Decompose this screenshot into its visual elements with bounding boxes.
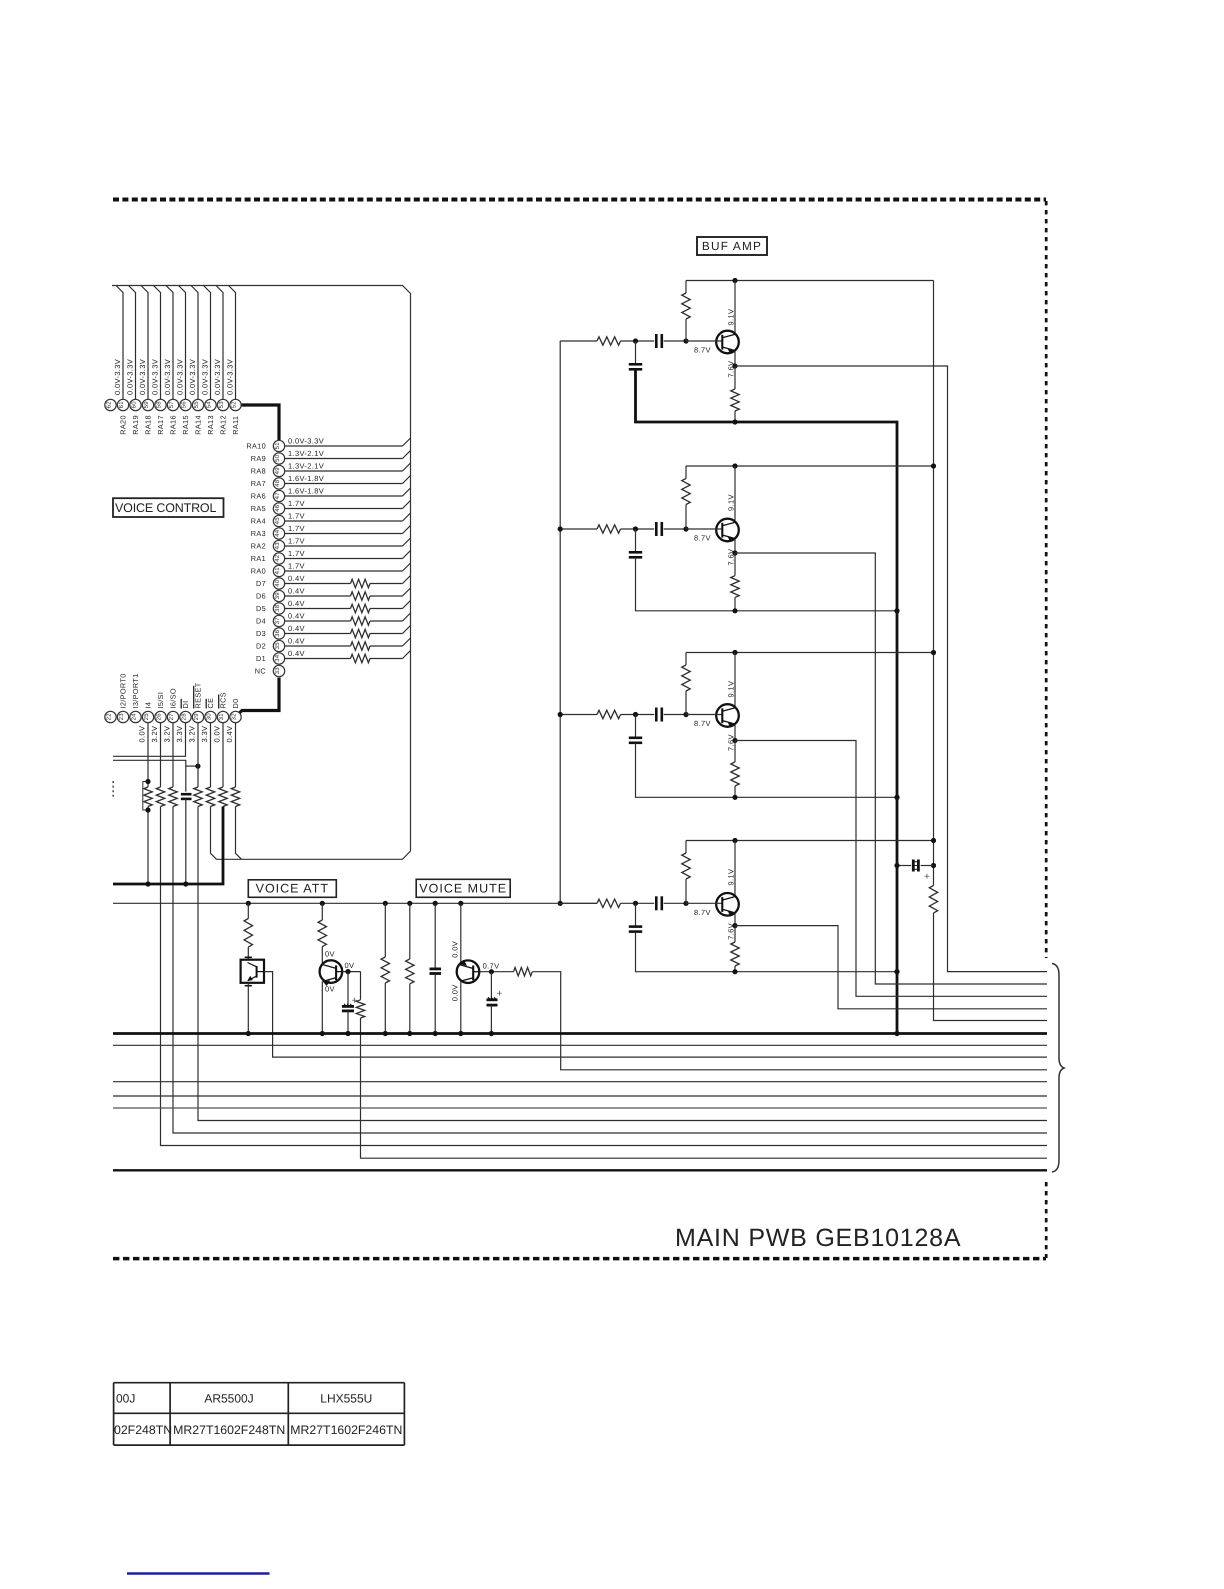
svg-text:RA15: RA15 [181,415,190,435]
wire rail stage1 [686,280,934,282]
node emitter-res return stage4 [732,969,737,974]
pin 60 circle [130,399,141,410]
wire return stage4 [636,932,898,972]
resistor emitter stage2 [734,553,736,576]
svg-text:0.4V: 0.4V [225,726,234,743]
svg-text:0.0V-3.3V: 0.0V-3.3V [226,359,235,395]
resistor supply bus [929,886,937,913]
svg-text:+: + [497,989,503,1000]
resistor pin27 [169,787,177,806]
svg-text:57: 57 [168,401,175,409]
svg-text:32: 32 [231,713,238,721]
pin 55 circle [192,399,203,410]
svg-text:RA9: RA9 [251,454,266,463]
wire RA10 to bus [285,445,403,447]
svg-text:42: 42 [274,554,281,562]
svg-text:RA10: RA10 [246,442,266,451]
wire input stage1 [560,340,597,342]
wire output stage1 [735,366,1047,972]
pin 49 RA8 circle [273,465,284,476]
svg-text:0.4V: 0.4V [288,574,305,583]
svg-text:D1: D1 [256,654,266,663]
node cap ground [183,881,188,886]
pin 28 circle [180,711,191,722]
svg-text:1.7V: 1.7V [288,512,305,521]
label box VOICE ATT [248,880,336,898]
svg-text:RA8: RA8 [251,467,266,476]
node emitter stage2 [732,550,737,555]
svg-text:0.0V-3.3V: 0.0V-3.3V [188,359,197,395]
wire RA3 to bus [285,533,403,535]
wire D4 to bus [285,620,351,622]
wire RA7 to bus [285,483,403,485]
svg-text:I6/SO: I6/SO [169,688,178,708]
node stage2 filter [633,526,638,531]
svg-text:MR27T1602F246TN: MR27T1602F246TN [290,1423,402,1437]
svg-text:55: 55 [193,401,200,409]
svg-text:RA4: RA4 [251,517,266,526]
pin 53 circle [217,399,228,410]
svg-text:62: 62 [106,401,113,409]
svg-text:I4: I4 [144,702,153,709]
node stage3 filter [633,712,638,717]
table IC versions [114,1383,405,1445]
svg-text:34: 34 [274,654,281,662]
svg-text:RA6: RA6 [251,492,266,501]
capacitor series stage1 [655,334,658,348]
wire RA9 to bus [285,458,403,460]
svg-text:58: 58 [156,401,163,409]
svg-text:RA0: RA0 [251,567,266,576]
svg-text:8.7V: 8.7V [694,908,711,917]
node return ground stage3 [894,795,899,800]
node ground s3 [894,795,899,800]
pin 47 RA6 circle [273,490,284,501]
wire bus line 1170 thick [113,1169,1047,1171]
node voice line x409.8 [407,901,412,906]
wire input stage4 [560,902,597,904]
overline DI [180,699,182,709]
svg-text:I2/PORT0: I2/PORT0 [119,673,128,708]
wire ground bus thick [113,1032,1047,1035]
capacitor shunt stage2 [635,529,637,552]
pin 59 circle [142,399,153,410]
svg-text:29: 29 [193,713,200,721]
wire mute base to connector [532,972,1047,1070]
svg-text:00J: 00J [116,1392,135,1406]
dashed border bottom [113,1257,1046,1261]
pin 44 RA3 circle [273,528,284,539]
node stage4 base [683,901,688,906]
bus RA/D outline [112,286,411,860]
svg-text:0.0V: 0.0V [450,984,459,1001]
svg-text:0.0V-3.3V: 0.0V-3.3V [151,359,160,395]
pin 29 circle [192,711,203,722]
svg-text:0.0V: 0.0V [138,726,147,743]
wire input stage3 [560,714,597,716]
svg-text:0.4V: 0.4V [288,599,305,608]
svg-text:0V: 0V [345,961,355,970]
wire D5 to bus [285,608,351,610]
wire output stage2 [735,553,1047,984]
wire D1 to bus [285,658,351,660]
overline RCS [218,695,220,709]
resistor D2 series [351,642,370,650]
svg-text:BUF AMP: BUF AMP [702,239,762,253]
label box BUF AMP [697,237,767,255]
svg-text:0.4V: 0.4V [288,612,305,621]
svg-text:D7: D7 [256,579,266,588]
node mutecap2 ground [489,1031,494,1036]
svg-text:50: 50 [274,454,281,462]
svg-text:1.7V: 1.7V [288,537,305,546]
svg-text:RA3: RA3 [251,529,266,538]
wire pin58 to bus [154,286,161,400]
wire pin30 CE [210,723,212,787]
IC1 boundary link pin52-pin51 [241,405,279,440]
pin 27 circle [167,711,178,722]
wire pin28 DI [113,723,186,756]
node emitter-res return stage2 [732,608,737,613]
node stage1 filter [633,338,638,343]
resistor base stage3 [685,653,687,666]
wire RA0 to bus [285,570,403,572]
svg-text:0V: 0V [325,985,335,994]
svg-text:02F248TN: 02F248TN [114,1423,172,1437]
resistor pin31 [219,787,227,806]
wire pin25 [147,723,149,787]
wire cap to pin29 [186,765,198,767]
svg-text:1.6V-1.8V: 1.6V-1.8V [288,487,324,496]
wire rail stage4 [686,840,934,842]
svg-text:RESET: RESET [194,682,203,708]
svg-text:0.4V: 0.4V [288,624,305,633]
node collector rail stage2 [732,463,737,468]
svg-text:27: 27 [168,713,175,721]
node ground s2 [894,608,899,613]
svg-text:CE: CE [206,698,215,709]
resistor D4 series [351,617,370,625]
node collector rail stage1 [732,278,737,283]
resistor emitter stage1 [734,366,736,389]
node supply rail3 [931,650,936,655]
wire RA5 to bus [285,508,403,510]
resistor base stage4 [685,841,687,854]
node supply cap [931,863,936,868]
svg-text:1.3V-2.1V: 1.3V-2.1V [288,449,324,458]
node emitter stage1 [732,363,737,368]
svg-text:D3: D3 [256,629,266,638]
svg-text:61: 61 [118,401,125,409]
jumper parallel pin25 [143,782,148,811]
node emitter stage4 [732,923,737,928]
svg-text:D5: D5 [256,604,266,613]
capacitor shunt stage1 [635,341,637,364]
pin 36 D3 circle [273,628,284,639]
svg-text:0.0V-3.3V: 0.0V-3.3V [126,359,135,395]
svg-text:0.4V: 0.4V [288,649,305,658]
transistor Q-att1 digital [241,960,264,983]
node voice line x385.3 [383,901,388,906]
wire input bus vertical [559,341,561,903]
dashed border top [113,198,1046,202]
wire pin31 RCS [222,723,224,787]
svg-text:RA5: RA5 [251,504,266,513]
wire mute collector down [460,981,462,1033]
node voice line x322.3 [320,901,325,906]
svg-text:53: 53 [218,401,225,409]
svg-text:31: 31 [218,713,225,721]
node stage3 base [683,712,688,717]
resistor mute1 [384,903,386,957]
svg-text:AR5500J: AR5500J [204,1392,253,1406]
node supply rail4 [931,838,936,843]
svg-text:39: 39 [274,592,281,600]
capacitor electrolytic att [347,972,349,1007]
wire pin56 to bus [179,286,186,400]
svg-text:DI: DI [181,701,190,709]
wire mute base [479,971,513,973]
svg-text:RA17: RA17 [156,415,165,435]
connector brace [1052,964,1064,1173]
wire pin59 to bus [141,286,148,400]
wire att1 base out [264,972,1047,1058]
svg-text:0.4V: 0.4V [288,587,305,596]
pin 62 circle [105,399,116,410]
svg-text:1.6V-1.8V: 1.6V-1.8V [288,474,324,483]
svg-text:9.1V: 9.1V [727,869,736,886]
label box VOICE MUTE [416,879,510,897]
svg-text:1.7V: 1.7V [288,562,305,571]
svg-text:I3/PORT1: I3/PORT1 [131,673,140,708]
node input s4 [558,901,563,906]
node att2 base [345,969,350,974]
pin 35 D2 circle [273,640,284,651]
svg-text:24: 24 [131,713,138,721]
node supply rail2 [931,463,936,468]
capacitor shunt stage3 [635,715,637,738]
wire return stage1 thick ground [636,369,898,1033]
wire pin29 RESET [197,723,199,787]
svg-text:49: 49 [274,467,281,475]
wire pin27 [172,723,174,787]
wire supply bus [933,281,935,886]
svg-text:D0: D0 [231,698,240,708]
wire pin32 D0 [235,723,237,787]
svg-text:25: 25 [143,713,150,721]
pin 31 circle [217,711,228,722]
svg-text:0.7V: 0.7V [483,962,500,971]
wire emitter stage2 [734,539,736,553]
svg-text:D6: D6 [256,592,266,601]
svg-text:45: 45 [274,517,281,525]
svg-text:0.0V-3.3V: 0.0V-3.3V [138,359,147,395]
wire emitter stage4 [734,913,736,925]
svg-text:D2: D2 [256,642,266,651]
wire bus line 1096 [113,1095,1047,1097]
svg-text:44: 44 [274,529,281,537]
node mute base [489,969,494,974]
pin 33 NC circle [273,665,284,676]
svg-text:54: 54 [206,401,213,409]
node att1 ground [246,1031,251,1036]
capacitor electrolytic C-buf [897,865,911,867]
svg-text:RA1: RA1 [251,554,266,563]
wire RA6 to bus [285,495,403,497]
node input s2 [558,526,563,531]
wire att2 base out [342,971,360,973]
svg-text:3.3V: 3.3V [200,726,209,743]
svg-text:0V: 0V [325,950,335,959]
node mute ground [458,1031,463,1036]
svg-text:1.7V: 1.7V [288,524,305,533]
wire RA2 to bus [285,545,403,547]
wire RA4 to bus [285,520,403,522]
resistor base stage2 [685,466,687,479]
svg-text:28: 28 [181,713,188,721]
svg-text:VOICE MUTE: VOICE MUTE [419,882,507,896]
svg-text:1.7V: 1.7V [288,549,305,558]
transistor Q-buf2 [686,519,739,542]
resistor input stage4 [597,899,621,907]
svg-text:8.7V: 8.7V [694,346,711,355]
node mutecap ground [433,1031,438,1036]
IC1 boundary link pin33-pin32 [238,678,279,715]
node emitter-res ground stage1 [732,419,737,424]
svg-text:9.1V: 9.1V [727,494,736,511]
pin 46 RA5 circle [273,503,284,514]
svg-text:RA12: RA12 [219,415,228,435]
node emitter-res return stage3 [732,795,737,800]
node pin25 bottom [145,807,150,812]
capacitor electrolytic mute [490,972,492,1000]
node stage4 filter [633,901,638,906]
pin 45 RA4 circle [273,515,284,526]
node stage1 base [683,338,688,343]
svg-text:52: 52 [231,401,238,409]
svg-text:LHX555U: LHX555U [320,1392,372,1406]
resistor pin26 [156,787,164,806]
wire rail stage3 [686,652,934,654]
svg-text:8.7V: 8.7V [694,719,711,728]
tick att1 top lead [245,956,252,958]
resistor base stage1 [685,281,687,294]
svg-text:RA13: RA13 [206,415,215,435]
node mute2 ground [407,1031,412,1036]
svg-text:0.0V: 0.0V [213,726,222,743]
wire output stage3 [735,741,1047,997]
svg-text:48: 48 [274,479,281,487]
wire pin60 to bus [129,286,136,400]
wire collector stage1 [734,281,736,334]
pin 25 circle [142,711,153,722]
svg-text:0.4V: 0.4V [288,637,305,646]
svg-text:RCS: RCS [219,692,228,708]
svg-text:47: 47 [274,492,281,500]
wire return stage2 [636,557,898,611]
resistor D1 series [351,654,370,662]
svg-text:RA11: RA11 [231,416,240,435]
pin 42 RA1 circle [273,553,284,564]
wire collector stage3 [734,653,736,708]
svg-text:1.3V-2.1V: 1.3V-2.1V [288,462,324,471]
pin 61 circle [117,399,128,410]
svg-text:43: 43 [274,542,281,550]
resistor pin32 [231,787,239,806]
node collector rail stage3 [732,650,737,655]
tick att1 bottom lead [245,985,252,987]
node ecap ground [894,863,899,868]
pin 40 D7 circle [273,578,284,589]
resistor input stage2 [597,525,621,533]
node pin25 ground [145,881,150,886]
wire cap link left [113,760,186,791]
pin 54 circle [205,399,216,410]
overline CE [205,699,207,709]
node pin29 wire [195,764,200,769]
svg-text:RA19: RA19 [131,415,140,435]
pin 38 D5 circle [273,603,284,614]
resistor emitter stage4 [734,926,736,942]
svg-text:D4: D4 [256,617,266,626]
svg-text:36: 36 [274,629,281,637]
wire collector stage2 [734,466,736,522]
capacitor shunt stage4 [635,903,637,926]
svg-text:38: 38 [274,604,281,612]
wire supply bus lower [934,913,1048,1021]
svg-text:RA18: RA18 [144,415,153,435]
svg-text:0.0V-3.3V: 0.0V-3.3V [288,437,324,446]
svg-text:41: 41 [274,567,281,575]
svg-text:RA16: RA16 [169,415,178,435]
capacitor mute [434,903,436,968]
overline RESET [193,686,195,709]
wire pin53 to bus [216,286,223,400]
wire D2 to bus [285,645,351,647]
wire voice line [113,902,597,904]
node collector rail stage4 [732,838,737,843]
transistor Q-buf4 [686,893,739,916]
svg-text:22: 22 [106,713,113,721]
svg-text:1.7V: 1.7V [288,499,305,508]
svg-text:MAIN PWB GEB10128A: MAIN PWB GEB10128A [675,1224,962,1252]
wire att1 emitter [247,983,249,1034]
node att2 ground [320,1031,325,1036]
pin 39 D6 circle [273,590,284,601]
wire pin52 to bus [229,286,236,400]
pin 22 circle [105,711,116,722]
wire pin61 to bus [116,286,123,400]
wire return stage3 [636,743,898,798]
svg-text:23: 23 [118,713,125,721]
node mute1 ground [383,1031,388,1036]
svg-text:0.0V-3.3V: 0.0V-3.3V [163,359,172,395]
node return ground stage4 [894,969,899,974]
pin 41 RA0 circle [273,565,284,576]
svg-text:VOICE ATT: VOICE ATT [256,882,329,896]
blue underline mark [127,1572,270,1575]
svg-text:NC: NC [255,667,266,676]
resistor att1 [247,903,249,918]
wire pin54 to bus [204,286,211,400]
transistor Q-buf3 [686,704,739,727]
node attcap ground [345,1031,350,1036]
pin 23 circle [117,711,128,722]
node pin25 top [145,779,150,784]
pin 52 circle [230,399,241,410]
capacitor series stage3 [655,708,658,722]
pin 58 circle [155,399,166,410]
